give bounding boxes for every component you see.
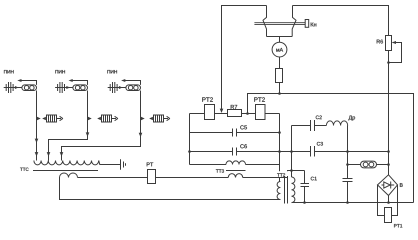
arrow frame into top rail — [220, 109, 224, 113]
R6 wiper arrow — [392, 41, 397, 44]
label RT2 left — [202, 97, 213, 101]
wire RT to TT3 — [156, 177, 229, 179]
filter box — [47, 115, 57, 122]
arrow PIN3 mid — [139, 133, 143, 137]
wire PIN1 down — [36, 91, 38, 161]
wire stem to meter — [279, 37, 281, 43]
C2 rail — [291, 126, 293, 178]
PIN unit 1 — [4, 70, 39, 160]
choke rail down — [347, 126, 349, 179]
transformer TT2 right winding — [292, 177, 295, 203]
arrow facing box — [149, 117, 153, 121]
wire resistor to bus — [279, 83, 281, 94]
wire top frame right segment — [293, 6, 389, 36]
capacitor C2 row — [292, 125, 311, 127]
capacitor C5 row — [190, 132, 233, 134]
right rail — [279, 114, 281, 182]
wire R6 wiper loop — [389, 43, 402, 63]
capacitor C6 C3 row — [190, 151, 233, 153]
filter 3 — [141, 115, 170, 122]
igniter body bottom — [267, 36, 293, 38]
left rail — [189, 114, 191, 165]
ground symbol rotated — [121, 159, 126, 170]
contact RT2 left — [205, 105, 215, 120]
capacitor C5 — [233, 129, 237, 137]
arrow PIN2 at coil — [47, 152, 51, 156]
filter 1 — [37, 115, 63, 122]
node right rail C6 — [278, 150, 281, 153]
label RT1 — [394, 224, 402, 227]
wire TT2 right bottom bus — [292, 202, 414, 204]
wire top with arrow — [72, 81, 88, 85]
button Kn — [305, 20, 309, 28]
arrow PIN1 at coil — [35, 152, 39, 156]
label R6 — [377, 40, 383, 44]
label RT — [147, 163, 153, 167]
filter box — [154, 115, 164, 122]
transformer TTS primary coil — [34, 161, 99, 165]
capacitor C1 — [301, 184, 310, 187]
lamp — [73, 85, 88, 91]
wire PIN3 down and left — [62, 91, 141, 161]
node left rail C6 — [188, 150, 191, 153]
label C2 — [316, 116, 322, 120]
wire TTS secondary right to RT — [78, 177, 148, 179]
node R6 bottom tie — [387, 61, 390, 64]
wire TT3 to right rail — [246, 164, 280, 166]
label C5 — [240, 125, 247, 129]
resistor under meter — [276, 69, 283, 83]
spark gap igniter plug — [55, 82, 73, 93]
arrow PIN1 mid — [35, 139, 39, 143]
capacitor C4 on choke rail — [343, 179, 353, 182]
lamp — [22, 85, 37, 91]
wire TTS secondary left down to bottom bus — [60, 178, 281, 200]
wire top with arrow — [21, 81, 37, 85]
PIN unit 2 — [47, 70, 90, 160]
node C2 rail C row — [290, 150, 293, 153]
label TT2 — [277, 171, 290, 177]
wire horizontal bus — [248, 94, 414, 203]
label Dr — [349, 116, 356, 121]
label RT2 right — [254, 97, 265, 101]
TTS secondary winding — [60, 173, 78, 177]
capacitor C6 — [233, 148, 237, 156]
node bridge bottom — [387, 201, 390, 204]
spark gap igniter plug — [4, 82, 22, 93]
label PIN — [107, 70, 117, 73]
relay RT — [148, 170, 156, 184]
arrow on plug lead — [15, 86, 19, 89]
lamp — [126, 85, 141, 91]
resistor R7 — [228, 110, 242, 117]
bridge rectifier V — [378, 175, 403, 196]
arrow PIN2 mid — [86, 132, 90, 136]
node choke rail lamp row — [346, 163, 349, 166]
arrow on plug lead — [119, 86, 123, 89]
node right rail lamp row — [387, 163, 390, 166]
label TT3 — [216, 169, 224, 172]
wire meter to resistor — [279, 57, 281, 69]
capacitor C2 — [311, 120, 315, 131]
meter mA — [272, 42, 287, 57]
transformer TT3 top winding — [226, 161, 246, 165]
wire top with arrow — [125, 81, 141, 85]
filter box — [102, 115, 112, 122]
wire right rail down to bridge — [388, 51, 390, 175]
TT2 core bars — [285, 176, 288, 204]
arrow PIN3 at coil — [60, 152, 64, 156]
transformer TT3 bottom winding — [228, 174, 242, 178]
wire C1 to bottom — [304, 187, 306, 203]
arrow out of wire — [88, 117, 92, 121]
wire C1 branch down — [304, 171, 306, 184]
wire lamp row — [348, 164, 361, 166]
arrow open out — [57, 118, 62, 120]
top rail — [190, 113, 280, 115]
node right rail C5 — [278, 131, 281, 134]
wire C2 to choke — [315, 125, 327, 127]
node after R7 — [246, 112, 249, 115]
arrow facing box — [42, 117, 46, 121]
label R7 — [231, 105, 237, 109]
arrow out of wire — [141, 117, 145, 121]
resistor R6 — [386, 36, 392, 51]
wire top frame left segment — [222, 6, 267, 111]
wire bridge left arm — [378, 185, 385, 216]
wire bridge bottom — [388, 196, 390, 203]
transformer TT2 left winding — [277, 182, 280, 200]
node meter bus — [278, 92, 281, 95]
label Kn — [311, 23, 317, 27]
igniter electrode right — [292, 6, 296, 37]
node right rail C row — [387, 150, 390, 153]
filter 2 — [88, 115, 118, 122]
wire PIN2 down and left — [49, 91, 88, 161]
lamp right — [361, 161, 377, 168]
arrow open out — [164, 118, 169, 120]
arrow facing box — [97, 117, 101, 121]
node C1 bottom — [303, 201, 306, 204]
label C1 — [311, 177, 317, 181]
wire TTS to ground — [99, 161, 121, 165]
relay RT1 — [385, 208, 392, 223]
label PIN — [55, 70, 65, 73]
label PIN — [4, 70, 14, 73]
spark gap igniter plug — [108, 82, 126, 93]
wire TT3 bottom to TT2 node — [243, 171, 305, 178]
contact RT2 right — [256, 105, 266, 120]
wire bridge right arm — [392, 185, 398, 216]
TTS core line — [33, 170, 98, 172]
choke Dr — [326, 121, 347, 126]
movable bar double line — [254, 23, 305, 25]
node choke bottom — [346, 201, 349, 204]
arrow open out — [112, 118, 117, 120]
label C6 — [240, 144, 247, 148]
TT3 core — [226, 170, 246, 172]
node choke rail C row — [346, 150, 349, 153]
wire lamp to right rail — [377, 164, 389, 166]
wire choke rail to bottom — [347, 182, 349, 203]
arrow out of wire — [37, 117, 41, 121]
node C2 rail junction — [290, 169, 293, 172]
wire TT3 row — [190, 164, 227, 166]
capacitor C3 — [311, 146, 315, 157]
igniter electrode left — [263, 6, 267, 37]
PIN unit 3 — [60, 70, 143, 160]
label C3 — [317, 142, 323, 146]
arrow on plug lead — [66, 86, 70, 89]
label TTS — [20, 168, 28, 171]
